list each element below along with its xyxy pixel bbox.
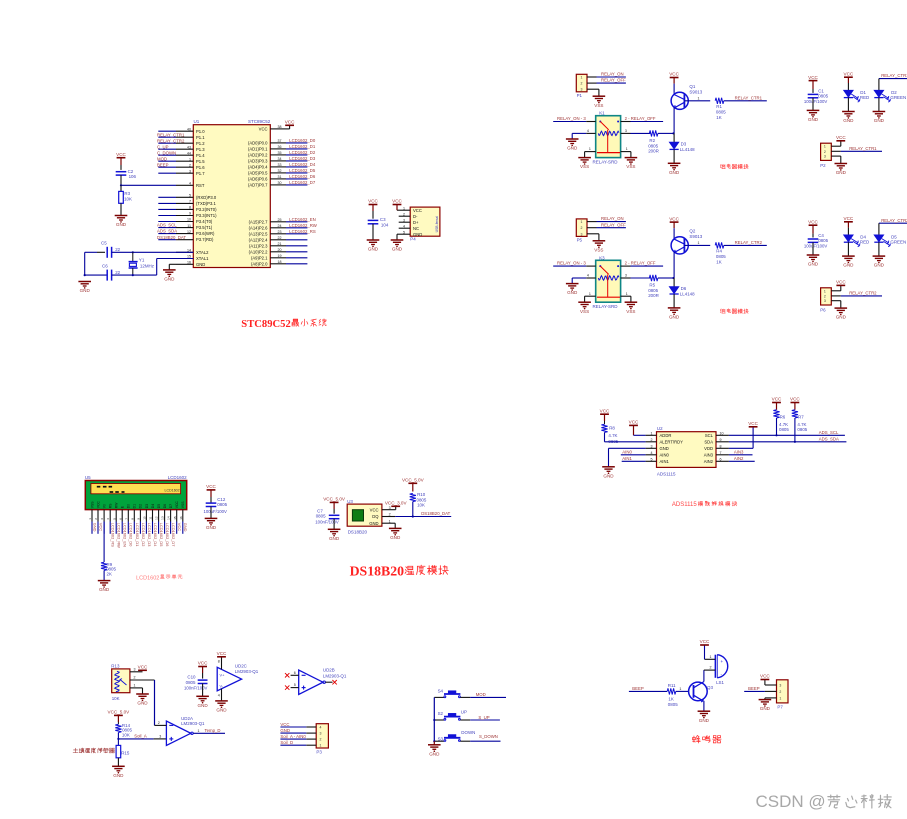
svg-text:VCC: VCC bbox=[669, 72, 679, 77]
svg-text:VCC: VCC bbox=[790, 397, 800, 402]
svg-text:LCD1602_D1: LCD1602_D1 bbox=[135, 523, 140, 547]
svg-text:S2: S2 bbox=[438, 711, 444, 716]
svg-text:1: 1 bbox=[581, 76, 583, 80]
wire bbox=[286, 172, 307, 174]
svg-text:S_DOWN: S_DOWN bbox=[479, 734, 498, 739]
svg-text:Soil_A: Soil_A bbox=[134, 734, 147, 739]
wire bbox=[280, 726, 306, 728]
output pin 7 bbox=[323, 681, 325, 683]
svg-text:DS18B20: DS18B20 bbox=[348, 530, 368, 535]
svg-text:6: 6 bbox=[118, 518, 122, 520]
svg-text:Q1: Q1 bbox=[689, 84, 695, 89]
svg-text:VCC: VCC bbox=[368, 199, 378, 204]
svg-text:P3.6(WR): P3.6(WR) bbox=[196, 231, 215, 236]
svg-text:10: 10 bbox=[143, 516, 147, 520]
wire bbox=[847, 98, 849, 112]
ground bbox=[602, 466, 615, 468]
pin SDA (9) bbox=[716, 441, 729, 443]
svg-text:LCD1602: LCD1602 bbox=[165, 488, 180, 492]
svg-text:VCC: VCC bbox=[808, 219, 818, 224]
pin P0.3 bbox=[270, 160, 286, 162]
wire bbox=[658, 277, 674, 279]
svg-text:(TXD)P3.1: (TXD)P3.1 bbox=[196, 201, 216, 206]
svg-text:D4: D4 bbox=[151, 504, 155, 508]
svg-text:GND: GND bbox=[567, 146, 578, 151]
svg-text:4: 4 bbox=[106, 518, 110, 520]
wire bbox=[333, 519, 335, 530]
wire bbox=[158, 522, 160, 534]
svg-text:VCC: VCC bbox=[259, 127, 268, 132]
svg-text:VCC: VCC bbox=[748, 421, 758, 426]
svg-text:LCD1602_D6: LCD1602_D6 bbox=[289, 174, 316, 179]
svg-text:GND: GND bbox=[99, 587, 110, 592]
relay pin 1 left bbox=[585, 151, 596, 153]
power symbol VCC bbox=[809, 80, 818, 82]
power symbol VCC bbox=[285, 124, 294, 126]
ground bbox=[215, 700, 228, 702]
node bbox=[433, 740, 435, 742]
svg-text:40: 40 bbox=[187, 127, 191, 131]
svg-text:100uF/100V: 100uF/100V bbox=[804, 99, 828, 104]
svg-text:3: 3 bbox=[625, 129, 627, 133]
svg-text:3: 3 bbox=[389, 506, 391, 510]
pot pin 3 bbox=[130, 671, 143, 673]
wire bbox=[812, 98, 814, 111]
svg-text:S9013: S9013 bbox=[689, 234, 702, 239]
svg-text:D+: D+ bbox=[413, 220, 419, 225]
svg-text:VCC: VCC bbox=[413, 208, 422, 213]
svg-text:P3.7(RD): P3.7(RD) bbox=[196, 237, 214, 242]
pin 2 bbox=[704, 669, 715, 671]
wire bbox=[470, 740, 500, 742]
power symbol VCC bbox=[844, 76, 853, 78]
no-ERC marker bbox=[285, 673, 289, 677]
pin AIN3 (7) bbox=[716, 454, 729, 456]
svg-text:UD2B: UD2B bbox=[323, 668, 335, 673]
ground bbox=[433, 741, 435, 745]
power symbol VCC bbox=[600, 413, 609, 415]
svg-text:D7: D7 bbox=[169, 504, 173, 508]
wire bbox=[182, 522, 184, 534]
svg-text:(A12)P2.4: (A12)P2.4 bbox=[249, 237, 269, 242]
svg-text:V+: V+ bbox=[220, 672, 226, 677]
pin 2 bbox=[587, 82, 597, 84]
svg-text:33: 33 bbox=[278, 163, 282, 167]
svg-text:(AD0)P0.0: (AD0)P0.0 bbox=[248, 141, 268, 146]
relay coil bbox=[598, 131, 619, 135]
node RST junction bbox=[120, 184, 122, 186]
wire VDD bbox=[729, 447, 753, 449]
ground bbox=[112, 765, 125, 767]
wire bbox=[572, 132, 586, 134]
svg-text:35: 35 bbox=[278, 151, 282, 155]
svg-text:BEEP: BEEP bbox=[157, 162, 169, 167]
pin 3 bbox=[306, 732, 316, 734]
svg-text:3: 3 bbox=[625, 274, 627, 278]
wire bbox=[152, 522, 154, 534]
wire bbox=[142, 688, 144, 694]
pin P2.7 bbox=[270, 221, 286, 223]
svg-text:(AD7)P0.7: (AD7)P0.7 bbox=[248, 183, 268, 188]
svg-text:C3: C3 bbox=[380, 217, 386, 222]
pin P1.3 bbox=[176, 148, 193, 150]
svg-text:0805: 0805 bbox=[217, 502, 227, 507]
svg-text:VCC_5.0V: VCC_5.0V bbox=[323, 497, 346, 502]
pin 4 bbox=[221, 689, 223, 701]
svg-text:8: 8 bbox=[189, 206, 191, 210]
svg-text:R6: R6 bbox=[780, 415, 786, 420]
svg-text:1: 1 bbox=[824, 145, 826, 149]
svg-text:P1.2: P1.2 bbox=[196, 141, 205, 146]
svg-text:1: 1 bbox=[779, 696, 781, 700]
svg-text:R4: R4 bbox=[716, 249, 722, 254]
wire bbox=[604, 432, 606, 441]
connector P2 bbox=[821, 143, 832, 160]
svg-text:2: 2 bbox=[134, 676, 136, 680]
wire bbox=[158, 208, 176, 210]
svg-text:VCC: VCC bbox=[99, 523, 104, 531]
svg-text:(A15)P2.7: (A15)P2.7 bbox=[249, 219, 269, 224]
wire bbox=[470, 696, 506, 698]
title buzzer bbox=[693, 736, 695, 740]
power symbol VCC bbox=[198, 666, 207, 668]
wire bbox=[145, 522, 147, 534]
svg-text:AIN1: AIN1 bbox=[660, 459, 670, 464]
power symbol VCC bbox=[791, 402, 800, 404]
svg-text:9: 9 bbox=[189, 212, 191, 216]
wire RST bbox=[121, 184, 176, 186]
pin P2.1 bbox=[270, 257, 286, 259]
svg-text:2: 2 bbox=[320, 738, 322, 742]
svg-text:K3: K3 bbox=[599, 255, 605, 260]
resistor R5 200R bbox=[649, 275, 658, 281]
svg-text:10: 10 bbox=[720, 432, 724, 436]
wire bbox=[280, 732, 306, 734]
svg-text:RELAY-SRD: RELAY-SRD bbox=[593, 160, 619, 165]
ground bbox=[842, 111, 855, 113]
svg-text:1: 1 bbox=[198, 729, 200, 733]
svg-text:0805: 0805 bbox=[186, 680, 196, 685]
svg-text:P2: P2 bbox=[820, 163, 826, 168]
LED D2 GREEN bbox=[878, 79, 880, 91]
svg-text:1: 1 bbox=[698, 96, 700, 100]
switch S4 bbox=[434, 696, 444, 698]
svg-text:22: 22 bbox=[278, 236, 282, 240]
wire bbox=[629, 690, 667, 692]
svg-text:2: 2 bbox=[651, 438, 653, 442]
ground bbox=[668, 162, 681, 164]
pin P1.7 bbox=[176, 172, 193, 174]
svg-text:RELAY_CTR2: RELAY_CTR2 bbox=[735, 240, 763, 245]
svg-text:VCC: VCC bbox=[370, 507, 379, 512]
wire bbox=[158, 142, 176, 144]
svg-text:AIN3: AIN3 bbox=[704, 452, 714, 457]
pin VDD (8) bbox=[716, 447, 729, 449]
svg-text:LCD1602_RS: LCD1602_RS bbox=[289, 229, 316, 234]
svg-text:LM2903-Q1: LM2903-Q1 bbox=[235, 669, 259, 674]
svg-text:LCD1602_RW: LCD1602_RW bbox=[117, 523, 122, 548]
pin P0.2 bbox=[270, 154, 286, 156]
svg-text:GND: GND bbox=[216, 708, 227, 713]
wire bbox=[470, 719, 500, 721]
relay coil bbox=[598, 276, 619, 280]
wire bbox=[286, 184, 307, 186]
wire bbox=[158, 160, 176, 162]
ground bbox=[807, 109, 820, 111]
svg-text:P1: P1 bbox=[577, 93, 583, 98]
wire AIN1 bbox=[622, 460, 646, 462]
wire bbox=[286, 160, 307, 162]
crystal Y1 12MHz bbox=[132, 252, 134, 261]
svg-text:USB-femal: USB-femal bbox=[435, 216, 439, 233]
pin XTAL2 bbox=[176, 251, 193, 253]
svg-text:RELAY_ON: RELAY_ON bbox=[601, 216, 624, 221]
pin P0.5 bbox=[270, 172, 286, 174]
wire bbox=[280, 744, 306, 746]
resistor R9 2K bbox=[101, 562, 107, 570]
relay lever bbox=[600, 266, 608, 274]
power symbol VCC bbox=[844, 221, 853, 223]
svg-text:GND: GND bbox=[669, 170, 680, 175]
svg-text:BEEP: BEEP bbox=[632, 686, 644, 691]
wire bbox=[158, 148, 176, 150]
svg-text:LCD1602_D4: LCD1602_D4 bbox=[289, 162, 316, 167]
ground bbox=[759, 699, 772, 701]
svg-text:100uF/100V: 100uF/100V bbox=[204, 509, 228, 514]
svg-text:AIN2: AIN2 bbox=[704, 459, 714, 464]
pin P1.5 bbox=[176, 160, 193, 162]
svg-text:GND: GND bbox=[603, 473, 614, 478]
svg-text:3: 3 bbox=[779, 684, 781, 688]
svg-text:LCD1602_EN: LCD1602_EN bbox=[289, 217, 316, 222]
svg-text:ADS1115: ADS1115 bbox=[672, 502, 697, 508]
wire bbox=[117, 733, 119, 739]
ground bbox=[698, 710, 711, 712]
svg-text:3: 3 bbox=[824, 155, 826, 159]
svg-text:GND: GND bbox=[843, 118, 854, 123]
svg-text:3: 3 bbox=[403, 219, 405, 223]
svg-text:P3.3(INT1): P3.3(INT1) bbox=[196, 213, 217, 218]
svg-text:0805: 0805 bbox=[716, 254, 726, 259]
power symbol VCC bbox=[207, 489, 216, 491]
ground bbox=[391, 239, 404, 241]
svg-text:GND: GND bbox=[874, 263, 885, 268]
svg-text:LCD1602_EN: LCD1602_EN bbox=[123, 523, 128, 547]
svg-text:SDA: SDA bbox=[704, 439, 713, 444]
wire bbox=[112, 251, 133, 253]
pin RST bbox=[176, 184, 193, 186]
wire bbox=[280, 738, 306, 740]
wire RELAY_ON to relay pin 3 bbox=[553, 121, 586, 123]
svg-text:S3: S3 bbox=[438, 737, 444, 742]
pin XTAL1 bbox=[176, 258, 193, 260]
wire bbox=[133, 274, 157, 276]
wire bbox=[704, 645, 706, 659]
svg-text:VCC: VCC bbox=[96, 501, 100, 509]
ground bbox=[835, 307, 848, 309]
svg-text:R1: R1 bbox=[716, 104, 722, 109]
wire bbox=[658, 132, 674, 134]
svg-text:0805: 0805 bbox=[818, 93, 828, 98]
resistor R15 bbox=[117, 739, 119, 746]
ground bbox=[566, 283, 579, 285]
pin 3 bbox=[765, 684, 777, 686]
svg-text:P3.4(T0): P3.4(T0) bbox=[196, 219, 213, 224]
svg-text:GND: GND bbox=[874, 118, 885, 123]
svg-text:6: 6 bbox=[720, 458, 722, 462]
title relay module bbox=[719, 164, 722, 165]
svg-text:GND: GND bbox=[113, 773, 124, 778]
svg-text:16: 16 bbox=[179, 516, 183, 520]
svg-text:19: 19 bbox=[278, 254, 282, 258]
pin P3.0 bbox=[176, 196, 193, 198]
relay contacts bbox=[599, 121, 601, 123]
svg-text:44: 44 bbox=[187, 151, 191, 155]
svg-text:2: 2 bbox=[581, 226, 583, 230]
wire bbox=[158, 196, 176, 198]
wire gnd pin bbox=[394, 523, 396, 528]
pin P1.4 bbox=[176, 154, 193, 156]
power symbol VSS bbox=[625, 301, 638, 303]
svg-text:7: 7 bbox=[189, 200, 191, 204]
svg-text:2: 2 bbox=[824, 150, 826, 154]
svg-text:V0: V0 bbox=[102, 504, 106, 508]
svg-text:LCD1602_D6: LCD1602_D6 bbox=[165, 523, 170, 547]
svg-text:P1.1: P1.1 bbox=[196, 135, 205, 140]
pin 1 bbox=[587, 76, 597, 78]
wire DQ bbox=[395, 516, 451, 518]
svg-text:2: 2 bbox=[581, 82, 583, 86]
switch S2 bbox=[434, 719, 444, 721]
svg-text:4: 4 bbox=[218, 694, 220, 698]
svg-text:10K: 10K bbox=[124, 197, 132, 202]
svg-text:GND: GND bbox=[329, 536, 340, 541]
transistor Q1 S9013 bbox=[673, 78, 675, 84]
wire bbox=[634, 434, 646, 436]
svg-text:12MHz: 12MHz bbox=[140, 264, 154, 269]
svg-text:0805: 0805 bbox=[779, 427, 789, 432]
connector P3 bbox=[316, 724, 328, 748]
svg-text:GND: GND bbox=[390, 535, 401, 540]
svg-text:GND: GND bbox=[760, 706, 771, 711]
node bbox=[412, 515, 414, 517]
ground bbox=[196, 695, 209, 697]
svg-text:VCC: VCC bbox=[808, 75, 818, 80]
wire bbox=[286, 166, 307, 168]
svg-text:CSDN @: CSDN @ bbox=[756, 792, 826, 811]
pin P3.7 bbox=[176, 239, 193, 241]
capacitor C1 100uF/100V bbox=[812, 89, 814, 93]
svg-text:C10: C10 bbox=[187, 675, 196, 680]
svg-text:XTAL2: XTAL2 bbox=[196, 250, 209, 255]
svg-text:2: 2 bbox=[158, 721, 160, 725]
pin GND bbox=[382, 522, 395, 524]
connector P4 USB bbox=[410, 207, 440, 236]
power symbol VSS bbox=[593, 95, 606, 97]
svg-text:11: 11 bbox=[187, 224, 191, 228]
svg-text:D3: D3 bbox=[145, 504, 149, 508]
relay K1 RELAY-SRD bbox=[596, 116, 621, 158]
svg-text:10K: 10K bbox=[112, 696, 120, 701]
power symbol VCC bbox=[670, 77, 679, 79]
svg-text:LM2903-Q1: LM2903-Q1 bbox=[323, 674, 347, 679]
svg-text:8: 8 bbox=[720, 445, 722, 449]
svg-text:2: 2 bbox=[189, 163, 191, 167]
power symbol VCC bbox=[809, 224, 818, 226]
resistor R10 10K bbox=[410, 493, 416, 501]
svg-text:14: 14 bbox=[167, 516, 171, 520]
power symbol VCC bbox=[700, 644, 709, 646]
svg-text:LM2903-Q1: LM2903-Q1 bbox=[181, 721, 205, 726]
wire bbox=[158, 154, 176, 156]
pin 1 bbox=[306, 744, 316, 746]
ground bbox=[668, 307, 681, 309]
svg-text:P1.5: P1.5 bbox=[196, 159, 205, 164]
svg-text:1K: 1K bbox=[668, 697, 673, 702]
pin ALERT/RDY (2) bbox=[646, 441, 657, 443]
LED D4 RED bbox=[847, 228, 849, 235]
ground bbox=[873, 255, 886, 257]
svg-text:P5: P5 bbox=[577, 238, 583, 243]
svg-text:U2: U2 bbox=[657, 426, 663, 431]
wire bbox=[724, 244, 767, 246]
power symbol VCC bbox=[749, 426, 758, 428]
svg-text:D3: D3 bbox=[681, 141, 687, 146]
wire bbox=[158, 130, 176, 132]
wire button rail bbox=[433, 697, 435, 741]
svg-text:DS18B20_DAT: DS18B20_DAT bbox=[421, 511, 450, 516]
node bbox=[672, 132, 674, 134]
svg-text:VCC_3.0V: VCC_3.0V bbox=[385, 501, 408, 506]
svg-text:25: 25 bbox=[278, 218, 282, 222]
svg-text:24: 24 bbox=[278, 224, 282, 228]
power symbol VCC bbox=[217, 656, 226, 658]
svg-text:LCD1602: LCD1602 bbox=[136, 575, 159, 581]
svg-text:3: 3 bbox=[581, 232, 583, 236]
svg-text:VCC: VCC bbox=[198, 661, 208, 666]
svg-text:ADS_SCL: ADS_SCL bbox=[157, 223, 177, 228]
resistor R6 4.7K bbox=[773, 410, 779, 418]
wire bbox=[372, 224, 374, 240]
svg-text:GREEN: GREEN bbox=[890, 240, 906, 245]
wire bbox=[121, 522, 123, 534]
svg-text:U5: U5 bbox=[85, 475, 91, 480]
ground bbox=[842, 255, 855, 257]
op-amp UD2C LM2903-Q1 bbox=[217, 667, 241, 691]
svg-text:VCC: VCC bbox=[760, 674, 770, 679]
svg-text:GND: GND bbox=[843, 263, 854, 268]
wire bbox=[286, 221, 307, 223]
svg-text:D2: D2 bbox=[139, 504, 143, 508]
svg-text:LCD1602_D3: LCD1602_D3 bbox=[289, 156, 316, 161]
resistor R1 1K bbox=[715, 98, 724, 104]
wire XTAL2 bbox=[133, 251, 194, 253]
pin P0.6 bbox=[270, 178, 286, 180]
svg-text:1K: 1K bbox=[716, 259, 721, 264]
ground bbox=[205, 517, 218, 519]
svg-text:RELAY_ON - 3: RELAY_ON - 3 bbox=[557, 261, 586, 266]
svg-text:GND: GND bbox=[369, 521, 378, 526]
svg-text:LCD1602_D0: LCD1602_D0 bbox=[129, 523, 134, 547]
power symbol VCC bbox=[670, 221, 679, 223]
svg-text:3: 3 bbox=[651, 445, 653, 449]
svg-text:GND: GND bbox=[836, 315, 847, 320]
svg-text:K1: K1 bbox=[599, 111, 605, 116]
svg-text:S_UP: S_UP bbox=[478, 715, 489, 720]
node bbox=[672, 277, 674, 279]
svg-text:GND: GND bbox=[368, 247, 379, 252]
svg-text:1: 1 bbox=[651, 432, 653, 436]
